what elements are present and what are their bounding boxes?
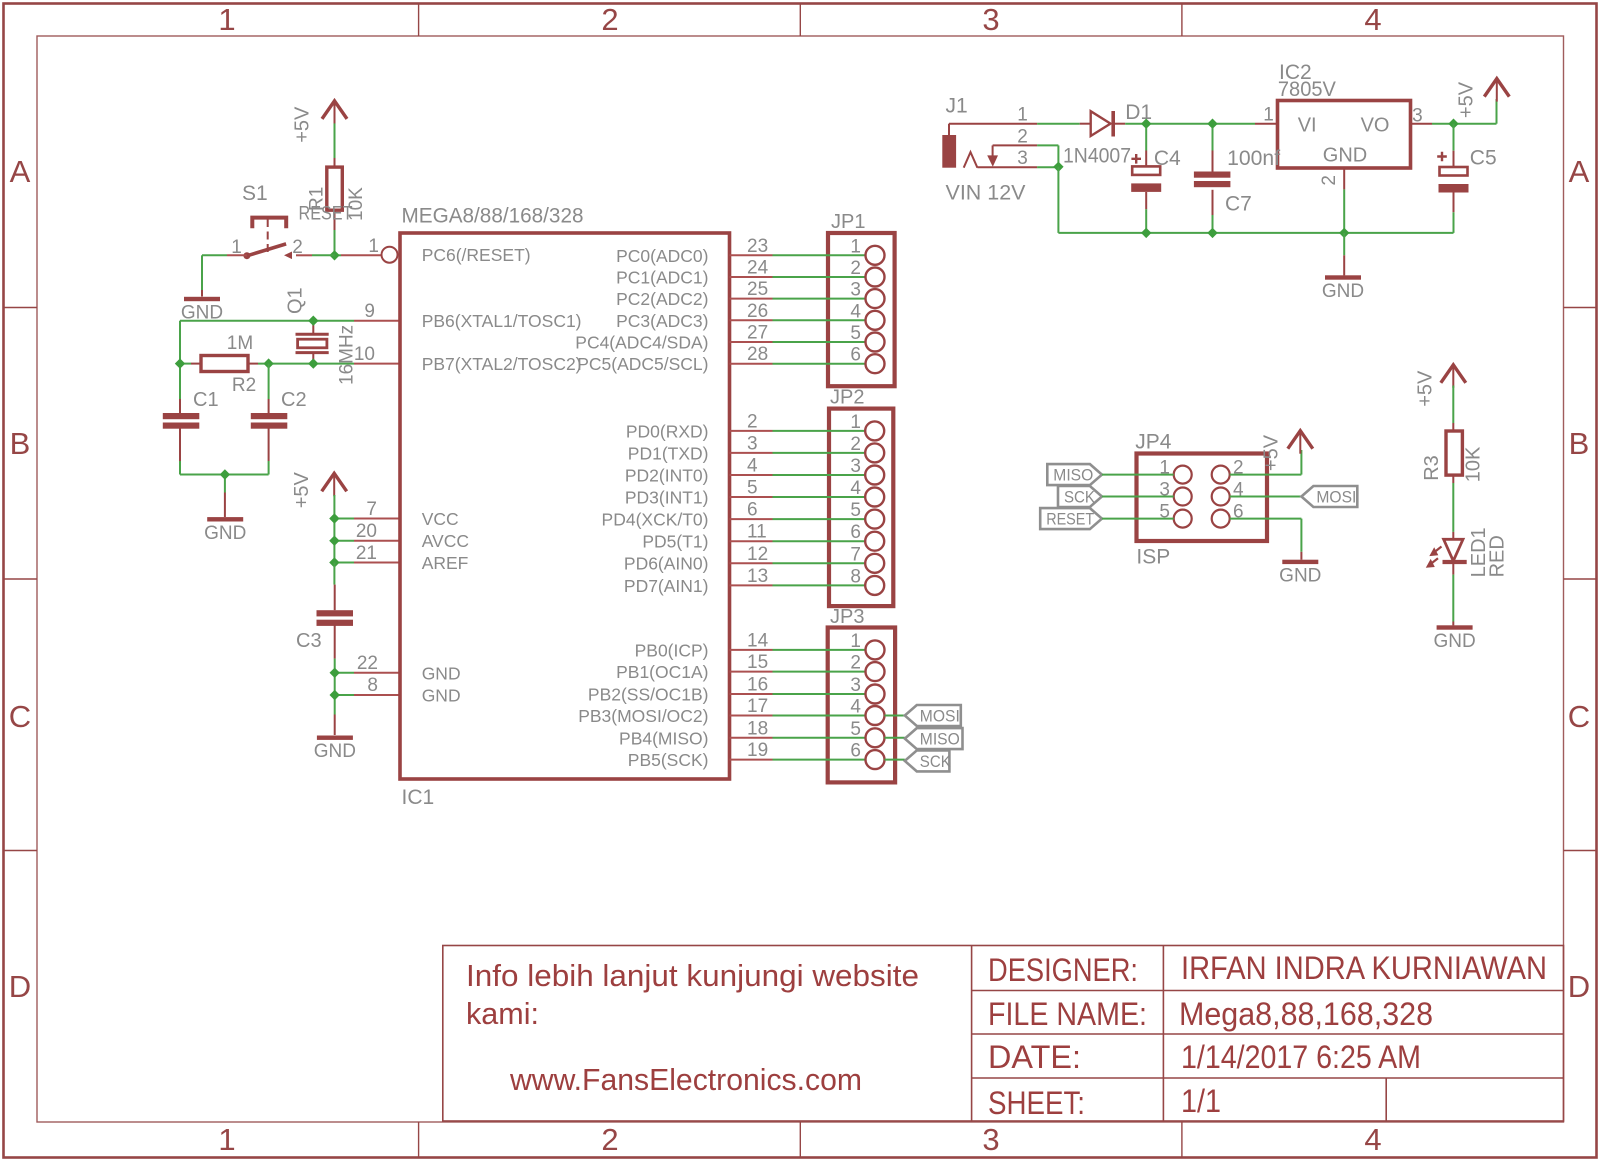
power symbol +5V (reset pullup) <box>322 101 347 119</box>
svg-text:+5V: +5V <box>1456 81 1478 118</box>
svg-text:PC5(ADC5/SCL): PC5(ADC5/SCL) <box>577 354 708 374</box>
pin JP2-2 <box>865 443 884 462</box>
svg-text:GND: GND <box>1323 145 1367 167</box>
ground (crystal caps) <box>207 517 243 521</box>
svg-text:5: 5 <box>850 719 861 740</box>
svg-text:DATE:: DATE: <box>988 1039 1081 1075</box>
svg-text:PD0(RXD): PD0(RXD) <box>626 421 709 441</box>
pin JP1-5 <box>866 333 885 352</box>
svg-text:FILE NAME:: FILE NAME: <box>988 996 1147 1032</box>
connector JP1 body <box>828 233 895 386</box>
wire IC1 pin 17 to JP3 pin 4 <box>730 715 773 717</box>
svg-text:3: 3 <box>850 280 861 301</box>
frame row tick right <box>1564 578 1597 580</box>
svg-text:MISO: MISO <box>1053 466 1093 485</box>
svg-text:23: 23 <box>747 236 768 257</box>
svg-text:5: 5 <box>850 500 861 521</box>
pin JP4-5 <box>1174 510 1192 528</box>
svg-text:7805V: 7805V <box>1278 78 1336 101</box>
ground (IC1/C3) <box>317 736 353 740</box>
svg-text:AREF: AREF <box>422 553 469 573</box>
svg-text:11: 11 <box>747 522 767 543</box>
wire C5 bottom <box>1453 212 1455 233</box>
capacitor C1 <box>179 399 181 413</box>
wire C1/C2 to GND <box>179 461 181 475</box>
net tag RESET (JP4) <box>1040 508 1102 529</box>
svg-text:2: 2 <box>292 237 303 258</box>
wire IC1 pin 13 to JP2 pin 8 <box>730 584 773 586</box>
svg-text:B: B <box>10 426 31 461</box>
svg-text:4: 4 <box>850 697 861 718</box>
wire +12V rail <box>1146 123 1212 125</box>
svg-text:6: 6 <box>850 522 861 543</box>
wire IC1 pin 18 to JP3 pin 5 <box>730 737 773 739</box>
svg-text:10K: 10K <box>1462 446 1484 482</box>
wire D1 cathode to +12V node <box>1115 123 1125 125</box>
svg-text:VCC: VCC <box>422 509 459 529</box>
wire MISO tag to JP4 pin 1 <box>1102 474 1174 476</box>
svg-text:PD4(XCK/T0): PD4(XCK/T0) <box>602 510 709 530</box>
junction GND pin 8 <box>330 690 340 700</box>
svg-text:PB0(ICP): PB0(ICP) <box>635 640 709 660</box>
wire IC1 pin 28 to JP1 pin 6 <box>730 363 773 365</box>
pin JP2-1 <box>865 421 884 440</box>
pin JP2-4 <box>865 488 884 507</box>
svg-text:1/1: 1/1 <box>1181 1083 1221 1119</box>
wire AREF pin 21 <box>334 562 354 564</box>
svg-text:19: 19 <box>747 740 768 761</box>
ic IC2 7805 body <box>1278 101 1411 169</box>
wire IC1 pin 4 to JP2 pin 3 <box>730 474 773 476</box>
junction crystal GND node <box>220 469 230 479</box>
junction IC2 GND <box>1339 228 1349 238</box>
net tag MOSI (JP3) <box>905 705 961 726</box>
svg-text:J1: J1 <box>946 95 968 118</box>
svg-text:MISO: MISO <box>920 730 960 749</box>
svg-text:JP2: JP2 <box>830 387 864 409</box>
svg-text:D: D <box>9 969 31 1004</box>
pin JP4-1 <box>1174 466 1192 484</box>
svg-text:PD7(AIN1): PD7(AIN1) <box>624 576 709 596</box>
frame column tick top <box>1181 4 1183 37</box>
svg-text:PB2(SS/OC1B): PB2(SS/OC1B) <box>588 685 709 705</box>
pin JP3-4 <box>866 706 885 725</box>
svg-text:JP4: JP4 <box>1135 431 1172 454</box>
svg-text:9: 9 <box>364 301 375 322</box>
connector J1 sleeve contact <box>964 152 978 168</box>
svg-text:2: 2 <box>850 653 861 674</box>
svg-text:PD1(TXD): PD1(TXD) <box>628 443 709 463</box>
resistor R2 <box>191 363 201 365</box>
svg-text:+5V: +5V <box>1260 434 1282 471</box>
wire R3 to LED1 <box>1452 483 1454 532</box>
pin JP4-4 <box>1212 488 1230 506</box>
pin JP2-8 <box>865 576 884 595</box>
wire IC1 pin 26 to JP1 pin 4 <box>730 319 773 321</box>
svg-text:5: 5 <box>747 478 758 499</box>
svg-text:4: 4 <box>1364 1122 1381 1157</box>
svg-text:PB5(SCK): PB5(SCK) <box>628 750 709 770</box>
svg-text:8: 8 <box>850 566 861 587</box>
pin JP1-3 <box>866 289 885 308</box>
svg-text:8: 8 <box>367 675 378 696</box>
pin JP1-1 <box>866 246 885 265</box>
svg-text:3: 3 <box>747 433 758 454</box>
junction D1/C4 <box>1141 119 1151 129</box>
wire VCC pin 7 <box>334 518 354 520</box>
svg-text:C5: C5 <box>1470 147 1497 170</box>
wire IC1 pin 3 to JP2 pin 2 <box>730 452 773 454</box>
wire IC2 GND drop <box>1343 233 1345 255</box>
svg-text:GND: GND <box>422 686 461 706</box>
svg-text:24: 24 <box>747 258 769 279</box>
svg-text:PD5(T1): PD5(T1) <box>642 532 708 552</box>
wire switch pin1 to GND <box>227 254 247 256</box>
svg-text:PC0(ADC0): PC0(ADC0) <box>616 246 708 266</box>
wire +5V to R1 <box>334 123 336 160</box>
svg-text:1: 1 <box>368 236 379 257</box>
pin JP3-3 <box>866 685 885 704</box>
junction R2/C1 node <box>175 358 185 368</box>
wire IC1 pin 27 to JP1 pin 5 <box>730 341 773 343</box>
svg-text:22: 22 <box>357 653 378 674</box>
svg-text:MOSI: MOSI <box>920 707 960 726</box>
pin JP3-2 <box>866 662 885 681</box>
svg-text:28: 28 <box>747 344 768 365</box>
wire C4 bottom <box>1145 209 1147 233</box>
wire C5 top <box>1453 124 1455 151</box>
wire +5V to VCC pins <box>333 495 335 519</box>
wire GND pin 22 <box>335 672 354 674</box>
svg-text:3: 3 <box>982 2 999 37</box>
pin JP3-6 <box>866 750 885 769</box>
wire IC1 pin 25 to JP1 pin 3 <box>730 298 773 300</box>
svg-text:PB1(OC1A): PB1(OC1A) <box>616 662 708 682</box>
svg-text:3: 3 <box>1017 148 1028 169</box>
svg-text:3: 3 <box>850 456 861 477</box>
wire IC1 pin 24 to JP1 pin 2 <box>730 276 773 278</box>
svg-text:4: 4 <box>747 456 758 477</box>
svg-text:C: C <box>1568 699 1590 734</box>
svg-text:RED: RED <box>1487 535 1509 577</box>
wire AREF to C3 <box>333 563 335 585</box>
svg-text:GND: GND <box>1433 631 1475 652</box>
svg-text:GND: GND <box>1322 281 1364 302</box>
svg-text:AVCC: AVCC <box>422 531 469 551</box>
svg-text:MEGA8/88/168/328: MEGA8/88/168/328 <box>402 205 584 228</box>
svg-text:C4: C4 <box>1154 147 1181 170</box>
svg-text:GND: GND <box>1279 565 1321 586</box>
svg-text:VI: VI <box>1298 115 1317 137</box>
pin JP4-3 <box>1174 488 1192 506</box>
svg-text:S1: S1 <box>242 182 268 205</box>
pin JP1-2 <box>866 268 885 287</box>
svg-text:IC1: IC1 <box>402 786 435 809</box>
wire IC1 pin 2 to JP2 pin 1 <box>730 430 773 432</box>
svg-text:R2: R2 <box>232 375 256 396</box>
wire IC1 pin 6 to JP2 pin 5 <box>730 518 773 520</box>
svg-text:1: 1 <box>850 412 861 433</box>
svg-text:1: 1 <box>1263 105 1274 126</box>
svg-text:Mega8,88,168,328: Mega8,88,168,328 <box>1179 996 1433 1032</box>
svg-text:GND: GND <box>422 663 461 683</box>
wire IC2 pin 1 <box>1255 123 1278 125</box>
svg-text:1: 1 <box>1017 104 1028 125</box>
svg-text:6: 6 <box>850 741 861 762</box>
pin JP2-7 <box>865 554 884 573</box>
svg-text:3: 3 <box>1412 106 1423 127</box>
svg-text:2: 2 <box>747 411 758 432</box>
svg-text:PC4(ADC4/SDA): PC4(ADC4/SDA) <box>575 333 708 353</box>
ic IC1 MEGA8/88/168/328 body <box>400 233 730 779</box>
junction VO/C5 <box>1448 119 1458 129</box>
svg-text:26: 26 <box>747 301 768 322</box>
svg-text:SHEET:: SHEET: <box>988 1085 1085 1121</box>
svg-text:RESET: RESET <box>1046 510 1094 529</box>
svg-text:13: 13 <box>747 566 768 587</box>
wire power GND rail <box>1058 232 1146 234</box>
connector JP3 body <box>828 628 895 783</box>
wire IC1 pin 12 to JP2 pin 7 <box>730 562 773 564</box>
wire C4 top <box>1145 128 1147 151</box>
connector JP2 body <box>829 409 893 606</box>
svg-text:1/14/2017 6:25 AM: 1/14/2017 6:25 AM <box>1181 1039 1421 1075</box>
wire C7 top <box>1212 128 1214 151</box>
wire R2 left to C1 <box>180 363 191 365</box>
svg-text:3: 3 <box>850 675 861 696</box>
svg-text:VIN 12V: VIN 12V <box>946 182 1026 205</box>
wire LED1 to GND <box>1452 575 1454 622</box>
svg-text:27: 27 <box>747 323 768 344</box>
svg-text:kami:: kami: <box>466 996 539 1031</box>
capacitor C2 <box>268 399 270 413</box>
svg-text:Q1: Q1 <box>285 287 307 314</box>
diode D1 <box>1091 111 1111 136</box>
wire C3 to GND pins <box>334 659 336 673</box>
svg-text:R3: R3 <box>1421 455 1443 481</box>
svg-text:7: 7 <box>850 544 861 565</box>
frame row tick left <box>4 850 38 852</box>
svg-text:20: 20 <box>356 521 377 542</box>
svg-text:www.FansElectronics.com: www.FansElectronics.com <box>509 1062 862 1097</box>
svg-text:JP3: JP3 <box>830 606 864 628</box>
capacitor C3 <box>334 585 336 611</box>
capacitor C4 <box>1145 151 1147 167</box>
wire GND pin 8 <box>335 694 354 696</box>
connector J1 switch arrow <box>992 145 994 156</box>
wire JP4 pin 4 to MOSI tag <box>1230 496 1302 498</box>
wire C3 GND drop <box>334 715 336 736</box>
svg-text:12: 12 <box>747 544 768 565</box>
svg-text:4: 4 <box>1364 2 1381 37</box>
svg-text:C2: C2 <box>281 389 307 411</box>
power symbol +5V (regulator out) <box>1484 79 1509 97</box>
svg-text:D: D <box>1568 969 1590 1004</box>
connector J1 barrel <box>942 135 956 168</box>
net tag SCK (JP4) <box>1058 486 1102 507</box>
svg-text:1: 1 <box>850 236 861 257</box>
svg-text:A: A <box>1569 154 1590 189</box>
wire IC2 pin 2 (GND) <box>1343 168 1345 189</box>
wire SCK tag to JP4 pin 3 <box>1102 496 1174 498</box>
wire J1 pin 2 <box>993 144 1038 146</box>
svg-text:7: 7 <box>366 499 377 520</box>
wire XTAL1 net <box>180 320 354 322</box>
ground (LED) <box>1437 625 1473 629</box>
power symbol +5V (ISP) <box>1288 431 1313 449</box>
wire C2 top <box>268 364 270 399</box>
wire IC1 pin 23 to JP1 pin 1 <box>730 254 773 256</box>
svg-text:18: 18 <box>747 718 768 739</box>
svg-text:2: 2 <box>1017 126 1028 147</box>
svg-text:RESET: RESET <box>299 204 353 225</box>
svg-text:2: 2 <box>850 258 861 279</box>
frame column tick bottom <box>418 1122 420 1158</box>
junction C7 branch <box>1207 119 1217 129</box>
wire R1 to node <box>334 230 336 255</box>
junction C4 GND <box>1141 228 1151 238</box>
svg-text:4: 4 <box>850 478 861 499</box>
wire VIN to GND rail <box>1057 167 1059 233</box>
svg-text:DESIGNER:: DESIGNER: <box>988 952 1138 988</box>
svg-text:1M: 1M <box>227 333 253 354</box>
switch S1 <box>252 218 286 229</box>
frame column tick top <box>418 4 420 37</box>
crystal Q1 <box>312 321 314 333</box>
ground (switch S1) <box>184 297 220 301</box>
svg-text:SCK: SCK <box>920 752 952 771</box>
frame column tick bottom <box>799 1122 801 1158</box>
svg-text:B: B <box>1569 426 1590 461</box>
svg-text:21: 21 <box>356 543 377 564</box>
svg-text:+5V: +5V <box>292 106 314 143</box>
pin JP4-2 <box>1212 466 1230 484</box>
svg-text:C7: C7 <box>1225 193 1252 216</box>
wire D1 anode <box>1080 123 1091 125</box>
svg-text:JP1: JP1 <box>831 211 865 233</box>
junction AVCC <box>329 536 339 546</box>
net tag MISO (JP3) <box>905 728 963 749</box>
svg-text:PC1(ADC1): PC1(ADC1) <box>616 268 708 288</box>
svg-text:VO: VO <box>1361 115 1390 137</box>
wire RESET tag to JP4 pin 5 <box>1102 518 1174 520</box>
svg-text:PC6(/RESET): PC6(/RESET) <box>422 245 531 265</box>
svg-text:2: 2 <box>1319 175 1340 186</box>
svg-text:PC3(ADC3): PC3(ADC3) <box>616 311 708 331</box>
svg-text:100nf: 100nf <box>1227 147 1280 170</box>
pin JP1-4 <box>866 311 885 330</box>
wire J1 pin 1 <box>948 124 950 135</box>
pin bubble PC6(/RESET) <box>382 247 398 263</box>
svg-text:PB3(MOSI/OC2): PB3(MOSI/OC2) <box>578 706 708 726</box>
capacitor C5 <box>1453 151 1455 167</box>
svg-text:3: 3 <box>982 1122 999 1157</box>
svg-text:PB6(XTAL1/TOSC1): PB6(XTAL1/TOSC1) <box>422 311 582 331</box>
net tag MISO (JP4) <box>1047 464 1102 485</box>
svg-text:1: 1 <box>850 631 861 652</box>
svg-text:GND: GND <box>314 741 356 762</box>
frame row tick left <box>4 578 38 580</box>
junction GND pin 22 <box>330 668 340 678</box>
wire JP3 pin 4 to MOSI tag <box>885 715 905 717</box>
wire IC1 pin 14 to JP3 pin 1 <box>730 649 773 651</box>
title block outline <box>443 946 1564 1122</box>
pin JP4-6 <box>1212 510 1230 528</box>
wire IC1 pin 16 to JP3 pin 3 <box>730 693 773 695</box>
net tag MOSI (JP4) <box>1301 486 1357 507</box>
resistor R3 <box>1452 423 1454 431</box>
svg-text:17: 17 <box>747 696 768 717</box>
frame row tick right <box>1564 850 1597 852</box>
svg-text:C: C <box>9 699 31 734</box>
svg-text:5: 5 <box>850 323 861 344</box>
svg-text:+5V: +5V <box>291 471 313 508</box>
wire IC1 pin 11 to JP2 pin 6 <box>730 540 773 542</box>
svg-text:PD2(INT0): PD2(INT0) <box>625 466 709 486</box>
svg-text:PD6(AIN0): PD6(AIN0) <box>624 554 709 574</box>
wire IC1 pin 19 to JP3 pin 6 <box>730 759 773 761</box>
svg-text:6: 6 <box>850 345 861 366</box>
wire IC2 pin 3 to +5V <box>1411 123 1433 125</box>
pin JP3-5 <box>866 728 885 747</box>
frame row tick left <box>4 307 38 309</box>
capacitor C7 <box>1212 151 1214 172</box>
pin JP2-3 <box>865 466 884 485</box>
wire node to IC pin 1 <box>335 254 342 256</box>
connector JP4 body <box>1137 454 1268 542</box>
power symbol +5V (VCC) <box>322 473 347 491</box>
junction XTAL1/crystal <box>308 316 318 326</box>
wire switch to node <box>296 254 312 256</box>
svg-text:SCK: SCK <box>1064 488 1096 507</box>
ground (power supply) <box>1325 275 1361 279</box>
svg-text:MOSI: MOSI <box>1316 488 1356 507</box>
junction R2/C2 node <box>263 358 273 368</box>
svg-text:PB7(XTAL2/TOSC2): PB7(XTAL2/TOSC2) <box>422 354 582 374</box>
frame column tick bottom <box>1181 1122 1183 1158</box>
resistor R1 <box>334 158 336 167</box>
svg-text:A: A <box>10 154 31 189</box>
svg-text:16MHz: 16MHz <box>337 325 358 385</box>
junction J1 pin2/pin3 <box>1053 162 1063 172</box>
svg-text:2: 2 <box>850 434 861 455</box>
svg-text:C3: C3 <box>296 630 322 652</box>
pin JP2-5 <box>865 510 884 529</box>
junction VCC <box>329 513 339 523</box>
svg-text:1: 1 <box>218 1122 235 1157</box>
wire JP3 pin 5 to MISO tag <box>885 737 905 739</box>
wire J1 pin 3 <box>977 166 1037 168</box>
svg-text:Info lebih lanjut kunjungi web: Info lebih lanjut kunjungi website <box>466 958 919 993</box>
wire JP4 pin 2 to +5V <box>1230 474 1302 476</box>
power symbol +5V (LED) <box>1441 365 1466 383</box>
wire +5V to R3 <box>1452 386 1454 424</box>
svg-text:25: 25 <box>747 279 768 300</box>
wire JP3 pin 6 to SCK tag <box>885 759 905 761</box>
junction C7 GND <box>1207 228 1217 238</box>
pin JP2-6 <box>865 532 884 551</box>
svg-text:1N4007: 1N4007 <box>1063 145 1131 168</box>
junction reset node <box>329 250 339 260</box>
svg-text:6: 6 <box>747 500 758 521</box>
svg-text:ISP: ISP <box>1136 546 1170 569</box>
svg-text:2: 2 <box>601 1122 618 1157</box>
wire JP4 pin 6 to GND <box>1230 518 1302 520</box>
svg-text:PD3(INT1): PD3(INT1) <box>625 488 709 508</box>
frame column tick top <box>799 4 801 37</box>
svg-text:+5V: +5V <box>1414 370 1436 407</box>
svg-text:16: 16 <box>747 675 768 696</box>
